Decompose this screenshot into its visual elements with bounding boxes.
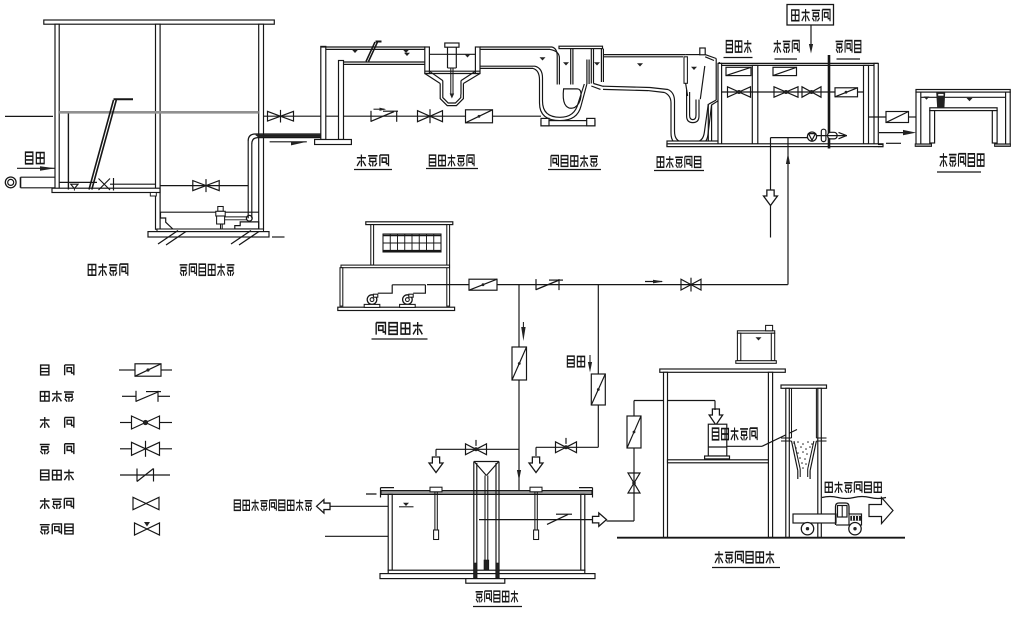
grit chamber drive shaft — [445, 43, 459, 99]
label underline — [837, 58, 861, 60]
sludge disinfection tank — [366, 488, 595, 584]
coarse cell interior — [59, 114, 97, 191]
effluent pipe with strainer — [869, 112, 917, 123]
sludge riser to dewatering — [607, 401, 642, 522]
label cugeshanjian 粗格栅间 — [88, 264, 128, 276]
label legend 球阀 — [40, 417, 50, 428]
wavy underline — [822, 497, 886, 499]
butterfly valve aerobic — [835, 88, 858, 97]
gate valve after pump house — [268, 110, 294, 123]
dewatering building — [660, 369, 786, 538]
sludge outlet line with check valve — [479, 513, 607, 527]
label legend 阀b — [65, 365, 74, 375]
label legend 蝶阀 — [41, 365, 49, 375]
check valve on air header — [536, 279, 563, 290]
vertical strainer on air drop — [512, 347, 527, 380]
label wushuijinshuibengfang 污水进水泵房 — [180, 264, 235, 276]
vortex grit chamber — [425, 47, 480, 106]
discharge chute — [727, 430, 797, 447]
polymer tank on roof — [736, 325, 777, 363]
legend strainer — [120, 469, 170, 482]
strainer on transfer pipe — [466, 110, 493, 123]
sludge dots in hopper — [793, 441, 813, 469]
label underline — [426, 168, 478, 170]
label legend 截止阀 — [40, 498, 74, 509]
discharge flow arrow — [270, 142, 307, 146]
supernatant return line — [317, 500, 389, 514]
internal air pipe and pump — [771, 129, 848, 141]
sump floor wedge — [161, 212, 175, 230]
air dosing branch left — [429, 440, 519, 473]
submersible pump — [216, 207, 252, 229]
water level marks grit — [404, 53, 471, 58]
inlet flange and pipe — [5, 177, 55, 188]
label queyangchi 缺氧池 — [774, 40, 800, 53]
label underline — [548, 169, 601, 171]
air header pipe — [427, 284, 788, 286]
tank top row: butterfly valve anoxic — [773, 67, 797, 75]
disposal hollow arrow — [869, 498, 893, 524]
anoxic separation thick line — [828, 55, 831, 149]
label underline — [712, 567, 780, 569]
blower 1 — [364, 285, 392, 308]
sludge drop line — [591, 285, 605, 448]
label underline — [724, 57, 753, 59]
stray level line — [325, 535, 388, 537]
dash below outlet — [886, 142, 901, 144]
pump riser pipe — [248, 134, 321, 218]
sludge hopper frame — [781, 385, 827, 538]
dosing lance left — [430, 487, 442, 539]
pump house internal pipe with gate valve — [160, 179, 248, 192]
feed line to dewatering machine — [634, 401, 723, 426]
second distribution well — [665, 48, 722, 147]
label legend 阀q — [65, 417, 74, 427]
fine screen channel frame — [315, 46, 426, 144]
air drop continues — [517, 380, 521, 491]
gate valve 2 on transfer pipe — [418, 109, 443, 123]
legend ball valve — [120, 416, 172, 429]
label underline — [473, 606, 522, 608]
sludge drop line with hollow arrow — [764, 138, 778, 238]
air drop line to sludge tank — [519, 285, 526, 347]
label chuzhiwuniwaiyun 处置污泥外运 — [825, 482, 881, 494]
label underline — [937, 171, 981, 173]
transfer pipe from pump house — [264, 115, 542, 117]
pump house floor and base slab — [148, 229, 285, 245]
ground line — [617, 537, 905, 539]
label yicipeishuijing 一次配水井 — [551, 155, 598, 167]
dosing lance right — [530, 487, 542, 539]
label wunituoshuiji 污泥脱水机 — [712, 428, 757, 441]
coarse screen room and pump house structure — [44, 20, 274, 229]
dewatering machine — [705, 424, 730, 459]
label gufengjifang 鼓风机房 — [376, 322, 422, 335]
air header inside — [392, 284, 425, 286]
water level marks channel — [352, 50, 409, 53]
label legend 闸阀 — [40, 444, 50, 454]
label wunixiaoduchi 污泥消毒池 — [476, 591, 518, 603]
channel to second well — [603, 55, 685, 93]
gate valve on air header — [681, 278, 701, 292]
blower room building — [338, 222, 455, 311]
label legend 隔膜阀 — [40, 524, 73, 535]
truck — [793, 503, 862, 535]
grade line left of tank — [5, 115, 53, 117]
label xigeshan 细格栅 — [357, 155, 389, 167]
legend check valve — [122, 391, 170, 402]
sludge dosing branch — [529, 438, 598, 473]
label shangqingye... 上清液回至进水泵房 — [234, 500, 312, 512]
hopper funnel — [792, 441, 817, 479]
label wuni 污泥 (air drop) — [567, 356, 584, 367]
label legend 止回阀 — [40, 391, 74, 402]
central mixer — [474, 462, 499, 579]
label ercipeishuijing 二次配水井 — [657, 156, 701, 168]
label underline — [372, 338, 428, 340]
legend butterfly valve — [119, 364, 172, 376]
channel to first distribution well — [480, 47, 552, 68]
pump pedestal — [235, 222, 259, 229]
check valve on transfer pipe — [371, 111, 398, 122]
first distribution well — [533, 46, 604, 126]
sump bench line — [160, 211, 259, 213]
inlet flow arrow — [17, 166, 55, 171]
effluent flow arrow — [879, 130, 916, 135]
label ziwaixiaoduqu 紫外消毒渠 — [940, 153, 984, 167]
dosing line with arrow — [809, 25, 813, 54]
tank internal pipe row — [722, 87, 864, 97]
label underline — [654, 170, 704, 172]
label haoyangchi 好氧池 — [836, 41, 861, 53]
legend diaphragm valve — [135, 522, 160, 535]
sludge drop arrow — [588, 355, 592, 373]
flow arrow on air header — [645, 280, 664, 284]
air riser into tank — [786, 138, 790, 285]
penstock symbol in channel — [99, 178, 157, 191]
label legend 阀z — [65, 444, 74, 454]
fine bar screen — [366, 42, 382, 62]
inclined coarse bar screen — [89, 99, 133, 189]
flow direction arrow at check valve — [374, 108, 387, 111]
strainer on air header — [469, 279, 497, 290]
blower 2 — [400, 285, 426, 308]
label jiachulinji 加除磷剂 — [792, 9, 830, 21]
label legend 过滤器 — [41, 469, 74, 480]
window grid — [383, 234, 441, 252]
UV lamp module — [936, 92, 945, 108]
UV disinfection channel — [915, 90, 1010, 147]
label jinshui 进水 — [25, 152, 44, 163]
label wunituoshuijifang 污泥脱水机房 — [715, 551, 774, 563]
dosing box jiachulinji — [787, 5, 834, 26]
label xuanliuchenshachi 旋流沉砂池 — [429, 155, 474, 167]
tank top row: butterfly valve anaerobic — [726, 67, 751, 75]
label underline — [775, 58, 798, 60]
legend gate valve — [120, 441, 172, 457]
label underline — [354, 169, 392, 171]
legend globe valve — [133, 497, 159, 509]
bioreactor tank walls — [667, 63, 884, 146]
label yanyangchi 厌氧池 — [726, 40, 751, 53]
